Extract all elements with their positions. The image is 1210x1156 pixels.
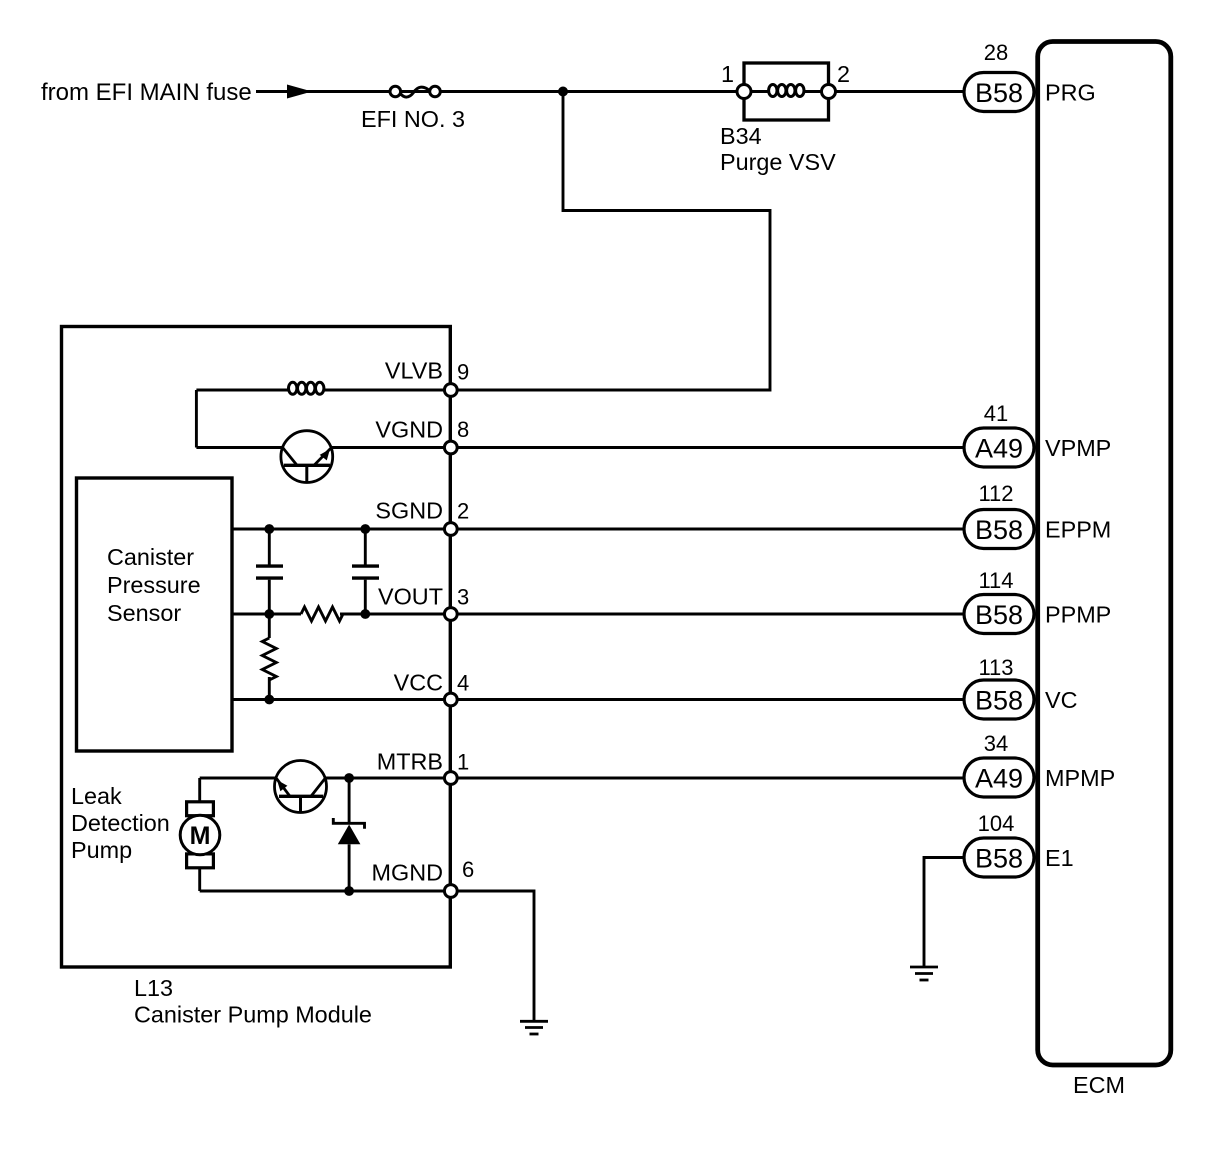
svg-text:PPMP: PPMP: [1045, 601, 1111, 627]
svg-text:MTRB: MTRB: [377, 748, 443, 774]
svg-text:Leak: Leak: [71, 783, 122, 809]
svg-text:PRG: PRG: [1045, 79, 1096, 105]
svg-text:114: 114: [978, 568, 1013, 593]
svg-text:4: 4: [457, 670, 469, 695]
svg-text:Pressure: Pressure: [107, 572, 201, 598]
svg-text:6: 6: [462, 857, 474, 882]
svg-text:34: 34: [984, 731, 1008, 756]
svg-text:M: M: [190, 822, 211, 850]
svg-text:VCC: VCC: [394, 669, 443, 695]
svg-text:B58: B58: [975, 600, 1023, 630]
svg-text:Canister Pump Module: Canister Pump Module: [134, 1002, 372, 1028]
svg-text:VPMP: VPMP: [1045, 435, 1111, 461]
svg-text:B58: B58: [975, 78, 1023, 108]
svg-text:Canister: Canister: [107, 544, 194, 570]
svg-text:28: 28: [984, 40, 1008, 65]
svg-text:VLVB: VLVB: [385, 357, 443, 383]
svg-text:EFI NO. 3: EFI NO. 3: [361, 106, 465, 132]
svg-text:E1: E1: [1045, 845, 1074, 871]
svg-text:112: 112: [978, 481, 1013, 506]
svg-text:Detection: Detection: [71, 810, 170, 836]
svg-text:A49: A49: [975, 763, 1023, 793]
svg-text:Pump: Pump: [71, 837, 132, 863]
svg-text:2: 2: [457, 498, 469, 523]
svg-text:9: 9: [457, 360, 469, 385]
svg-text:L13: L13: [134, 975, 173, 1001]
svg-text:1: 1: [457, 749, 469, 774]
svg-text:VGND: VGND: [375, 416, 443, 442]
svg-text:Sensor: Sensor: [107, 600, 181, 626]
svg-text:104: 104: [978, 811, 1015, 836]
svg-text:VOUT: VOUT: [378, 583, 443, 609]
svg-text:B58: B58: [975, 843, 1023, 873]
svg-text:ECM: ECM: [1073, 1072, 1125, 1098]
svg-text:A49: A49: [975, 433, 1023, 463]
svg-text:B58: B58: [975, 685, 1023, 715]
svg-text:B58: B58: [975, 515, 1023, 545]
svg-text:from EFI MAIN fuse: from EFI MAIN fuse: [41, 79, 252, 106]
svg-text:VC: VC: [1045, 687, 1078, 713]
svg-text:1: 1: [721, 61, 734, 87]
svg-text:SGND: SGND: [375, 497, 443, 523]
svg-text:3: 3: [457, 584, 469, 609]
svg-text:Purge VSV: Purge VSV: [720, 149, 836, 175]
svg-text:MPMP: MPMP: [1045, 765, 1115, 791]
svg-text:B34: B34: [720, 123, 762, 149]
svg-text:EPPM: EPPM: [1045, 516, 1111, 542]
svg-text:2: 2: [837, 61, 850, 87]
svg-text:8: 8: [457, 417, 469, 442]
svg-text:MGND: MGND: [372, 859, 443, 885]
svg-text:41: 41: [984, 401, 1008, 426]
svg-text:113: 113: [978, 655, 1013, 680]
